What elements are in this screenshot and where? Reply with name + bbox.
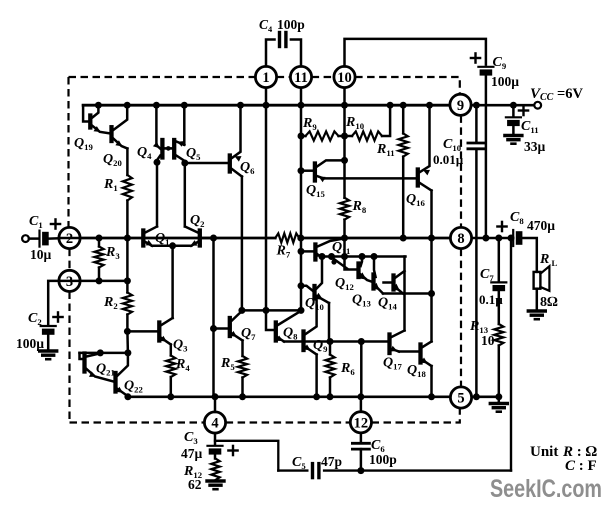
wire pin3 line <box>80 280 127 283</box>
capacitor C5 <box>311 464 314 478</box>
wire Q6 collector col <box>241 177 244 311</box>
wire pin2 stub <box>59 237 80 240</box>
pin 8 <box>450 227 471 248</box>
svg-text:C : F: C : F <box>565 458 597 474</box>
junction Q10 base node <box>298 282 305 289</box>
junction clu331 <box>328 253 335 260</box>
wire input to C1 <box>29 237 38 240</box>
junction R5 rail5 <box>239 393 246 400</box>
wire Q17col up <box>403 257 406 331</box>
wire C6 to bottom line <box>360 449 363 471</box>
junction R7 end col11 <box>297 235 304 242</box>
junction y310 a <box>238 307 245 314</box>
wire rail5 gnd stub <box>498 397 501 404</box>
wire pin2-to-pin8 horizontal line <box>80 237 275 240</box>
junction Q15 base col11 <box>298 167 305 174</box>
transistor Q2 <box>198 231 202 246</box>
svg-text:4: 4 <box>211 416 218 432</box>
wire pin10 lead <box>343 88 346 106</box>
junction R1 pin2line <box>124 235 131 242</box>
wire speaker ground lead <box>536 289 539 311</box>
pin 4 <box>204 412 225 433</box>
junction Q4 collector node <box>154 159 161 166</box>
junction pin12-rail <box>357 393 364 400</box>
resistor R12 <box>211 459 219 481</box>
transistor Q18 <box>418 345 422 363</box>
wire Q1Q2e col to Q3 <box>171 246 174 318</box>
junction clu374 <box>371 253 378 260</box>
junction R8 rail8 <box>341 235 348 242</box>
svg-text:33µ: 33µ <box>524 139 546 154</box>
ground at rail5 right <box>490 402 507 405</box>
svg-text:47p: 47p <box>321 454 342 469</box>
svg-text:100µ: 100µ <box>491 74 519 89</box>
wire pin1 column <box>265 105 268 310</box>
junction C6 bottom line <box>357 467 364 474</box>
wire Q5 emitter col <box>183 105 186 145</box>
junction Q16col rail8 <box>428 235 435 242</box>
capacitor C11 <box>506 116 521 118</box>
wire Q15-Q16 base line <box>324 177 416 180</box>
transistor Q15 <box>313 164 317 181</box>
wire pin11 lead <box>300 88 303 106</box>
svg-text:8Ω: 8Ω <box>540 295 558 310</box>
svg-text:SeekIC.com: SeekIC.com <box>490 475 602 503</box>
junction R2 pin3line <box>124 277 131 284</box>
svg-text:100p: 100p <box>369 452 397 467</box>
capacitor C10 <box>468 142 485 145</box>
wire Q9 emitter col <box>315 355 318 397</box>
transistor Q1 <box>141 231 145 246</box>
junction Q4Q5 base tie <box>166 146 171 151</box>
wire pin11 column <box>300 105 303 310</box>
capacitor C3 <box>208 445 223 447</box>
junction Q7 base node <box>210 325 217 332</box>
transistor Q5 <box>172 140 176 158</box>
wire Q8-Q9-Q17 base line y341 <box>284 340 388 343</box>
transistor Q11 <box>313 245 317 260</box>
wire R3 leads <box>98 238 101 247</box>
plus mark C9 <box>471 57 480 59</box>
transistor Q21 <box>82 354 86 372</box>
wire C7-R13 <box>498 291 501 324</box>
node Vcc terminal <box>534 102 541 109</box>
wire Q5col to Q2 <box>184 163 187 227</box>
transistor Q19 <box>88 116 92 128</box>
wire pin3 to C2 <box>48 281 59 324</box>
wire Q4col to Q1 <box>156 162 159 226</box>
transistor Q12 <box>356 264 360 278</box>
junction y310 b <box>263 307 270 314</box>
wire R13 to rail5 <box>498 346 501 397</box>
wire Q11 base <box>301 250 313 253</box>
ground under R12 <box>207 479 224 482</box>
wire pin4 col <box>212 238 215 397</box>
wire R1col pin2-pin3 <box>126 238 129 281</box>
wire Q10 base <box>301 286 312 291</box>
junction R11 rail8 <box>400 235 407 242</box>
wire R11 to rail8 <box>402 157 405 238</box>
wire R2 to Q3 base <box>126 315 129 332</box>
svg-text:VCC =6V: VCC =6V <box>530 86 583 103</box>
wire pin10 column upper <box>343 105 346 198</box>
transistor Q14 <box>391 276 395 290</box>
wire C8 to speaker <box>522 238 536 272</box>
junction Q9e rail5 <box>313 393 320 400</box>
pin 12 <box>350 412 371 433</box>
plus mark C11 <box>519 109 528 111</box>
wire top bus rail <box>83 104 450 107</box>
wire Q16 collector col <box>430 191 433 239</box>
plus mark C8 <box>497 225 506 227</box>
wire pin12 to C6 <box>360 433 363 441</box>
junction C10 Vcc <box>473 102 480 109</box>
IC boundary dashed left edge <box>67 77 69 227</box>
resistor R1 <box>123 175 132 201</box>
pin 5 <box>450 387 471 408</box>
wire R4 to rail5 <box>170 377 173 397</box>
ground under speaker <box>528 309 545 312</box>
wire y310 line <box>242 309 301 312</box>
junction pin10 bus <box>341 102 348 109</box>
wire Q17e-Q18b <box>399 350 418 353</box>
resistor R10 <box>352 131 382 140</box>
resistor R6 <box>325 355 334 378</box>
wire bootstrap top <box>345 39 486 67</box>
wire cluster out line y293 <box>383 292 432 295</box>
wire Q3 emitter to R4 <box>170 345 173 356</box>
junction clu362 <box>359 253 366 260</box>
junction Q2base col <box>210 235 217 242</box>
wire pin4 to C3 <box>214 433 217 444</box>
junction Q4 bus <box>153 102 160 109</box>
transistor Q3 <box>157 323 161 341</box>
junction C7 rail8 <box>495 235 502 242</box>
transistor Q9 <box>301 332 305 351</box>
wire pin3 stub <box>59 280 80 283</box>
junction pin1 bus <box>263 102 270 109</box>
junction Q3 base node <box>124 328 131 335</box>
capacitor C7 <box>491 281 506 283</box>
wire C7 lead <box>498 238 501 281</box>
wire C1 to pin2 <box>50 237 59 240</box>
junction y352 a <box>97 349 104 356</box>
svg-text:10: 10 <box>481 333 495 348</box>
transistor Q17 <box>387 335 391 354</box>
junction C10 rail5 <box>473 393 480 400</box>
junction R11 bus <box>400 102 407 109</box>
junction clu344 <box>341 253 348 260</box>
svg-text:12: 12 <box>354 415 369 431</box>
transistor Q8 <box>274 323 278 341</box>
junction R6 top <box>327 338 334 345</box>
svg-text:47µ: 47µ <box>181 446 203 461</box>
capacitor C1 <box>38 231 40 247</box>
resistor R7 <box>275 233 299 242</box>
resistor R8 <box>340 198 349 220</box>
junction Q18e rail5 <box>428 393 435 400</box>
svg-text:62: 62 <box>188 477 202 492</box>
resistor R3 <box>94 247 103 268</box>
svg-text:5: 5 <box>457 391 464 407</box>
svg-text:470µ: 470µ <box>527 218 555 233</box>
IC boundary dashed bottom edge <box>70 421 205 423</box>
IC boundary dashed right edge <box>460 115 462 227</box>
wire R8col below rail8 <box>343 238 346 257</box>
junction C11 Vcc <box>510 102 517 109</box>
wire Q3 base line <box>127 330 157 333</box>
svg-text:1: 1 <box>262 70 269 86</box>
svg-text:10: 10 <box>337 70 352 86</box>
junction emitter line <box>169 242 176 249</box>
wire Q5col to Q6 base <box>185 162 228 165</box>
transistor Q13 <box>371 275 375 289</box>
junction y293 col431 <box>428 290 435 297</box>
resistor R9 <box>306 131 339 140</box>
capacitor C4 <box>278 33 281 47</box>
wire Q1Q2 emitter line <box>152 245 191 248</box>
junction clu extra blob <box>331 259 336 264</box>
wire bottom rail pin5 line <box>128 395 450 398</box>
ground under C11 <box>505 134 522 137</box>
wire Vcc rail right of pin 9 <box>471 104 534 107</box>
capacitor C2 <box>41 325 56 327</box>
plus mark C3 <box>228 449 237 451</box>
wire pin12 lead <box>360 397 363 412</box>
wire Q4 collector <box>157 156 160 163</box>
wire R6 bottom lead <box>329 378 332 397</box>
junction Q19 collector bus <box>95 102 102 109</box>
junction y352 b <box>124 349 131 356</box>
wire R8 to rail8 <box>343 220 346 238</box>
transistor Q4 <box>160 140 164 158</box>
wire R11 top lead <box>402 105 405 133</box>
wire bootstrap to rail8 <box>485 76 488 238</box>
wire Q7 emitter to R5 <box>241 341 244 357</box>
capacitor C8 <box>512 230 514 246</box>
junction pin4-rail <box>212 393 219 400</box>
wire Q7 base <box>214 327 228 330</box>
junction bottom line rail8 <box>508 235 515 242</box>
svg-text:100µ: 100µ <box>16 336 44 351</box>
junction R13 rail5 <box>495 393 502 400</box>
pin 10 <box>334 66 355 87</box>
svg-text:100p: 100p <box>277 17 305 32</box>
wire Q20 emitter to R1 <box>126 149 129 176</box>
pin 2 <box>59 227 80 248</box>
svg-text:10µ: 10µ <box>30 247 52 262</box>
junction Q17 base node <box>358 338 365 345</box>
wire pin3line to R2 <box>126 281 129 293</box>
junction clu322 <box>319 253 326 260</box>
junction y310 c <box>298 307 305 314</box>
junction Q22e rail5 <box>124 393 131 400</box>
wire Q18 emitter col <box>430 366 433 397</box>
transistor Q10 <box>312 286 316 299</box>
transistor Q6 <box>228 156 232 172</box>
wire clu diag1 <box>333 258 348 269</box>
wire R1 to pin2 line <box>126 201 129 239</box>
svg-text:0.01µ: 0.01µ <box>433 152 464 167</box>
IC boundary dashed top edge <box>69 76 256 78</box>
junction R9 left <box>298 133 305 140</box>
junction pin11 bus <box>298 102 305 109</box>
wire R5 to rail5 <box>241 378 244 397</box>
svg-text:Unit: Unit <box>530 444 558 460</box>
wire C10 column <box>475 105 478 141</box>
svg-text:11: 11 <box>294 70 308 86</box>
ground under C2 <box>40 349 57 352</box>
transistor Q7 <box>228 318 232 336</box>
junction Q6 emitter bus <box>237 102 244 109</box>
junction Q16 emitter bus <box>426 102 433 109</box>
wire C2 ground lead <box>47 335 50 350</box>
wire Q4 emitter col <box>156 105 160 148</box>
wire Q17base col to rail5 <box>360 342 363 397</box>
junction bootstrap rail8 <box>482 235 489 242</box>
wire Q2 base to col <box>202 237 214 240</box>
capacitor C9 <box>478 66 493 68</box>
plus mark C1 <box>51 223 60 225</box>
junction R4 rail5 <box>167 393 174 400</box>
wire pin4 tap to bottom line <box>215 441 278 471</box>
transistor Q16 <box>416 170 420 186</box>
junction R3 bottom <box>96 277 103 284</box>
junction Q5 collector node <box>181 160 188 167</box>
wire cluster mid line y256 <box>322 255 406 258</box>
svg-text:8: 8 <box>457 231 464 247</box>
wire bottom feedback line <box>278 469 307 471</box>
junction R6 rail5 <box>327 393 334 400</box>
junction Q20 collector bus <box>124 102 131 109</box>
pin 1 <box>255 66 276 87</box>
wire Q15 base <box>301 169 313 172</box>
svg-text:9: 9 <box>457 98 464 114</box>
resistor R5 <box>238 356 247 378</box>
pin 9 <box>450 94 471 115</box>
wire R10 leads <box>345 135 353 138</box>
junction Q15 collector col10 <box>341 157 348 164</box>
transistor Q20 <box>109 127 113 141</box>
wire bus left end to Q19 base <box>83 105 88 121</box>
wire C3 to R12 <box>214 455 217 459</box>
wire Q16col to Q18col <box>430 238 433 342</box>
speaker RL <box>534 272 541 289</box>
resistor R2 <box>123 293 132 315</box>
wire Q3base down to Q21 node <box>126 331 129 353</box>
plus mark C2 <box>53 316 62 318</box>
junction Q5 bus <box>181 102 188 109</box>
resistor R4 <box>166 356 175 378</box>
transistor Q22 <box>113 373 117 392</box>
junction R9 right col10 <box>341 133 348 140</box>
wire Q8 base path <box>266 310 274 330</box>
junction R3 top <box>96 235 103 242</box>
wire R9 leads <box>301 135 306 138</box>
wire C11 lead <box>512 105 515 115</box>
pin 11 <box>290 66 311 87</box>
capacitor C6 <box>352 442 369 445</box>
wire pin8 rail right of pin 8 <box>472 237 514 240</box>
wire C4 loop <box>266 40 275 67</box>
wire C11 ground lead <box>512 126 515 134</box>
wire Q12 base path <box>345 257 357 270</box>
wire pin4 lead <box>214 397 217 412</box>
junction Q11 base <box>298 248 305 255</box>
wire bottom line up to rail8 <box>510 238 512 471</box>
wire pin1 lead <box>265 88 268 106</box>
pin 3 <box>59 270 80 291</box>
node input terminal <box>22 235 29 242</box>
junction R10 bus <box>387 102 394 109</box>
resistor R13 <box>494 324 503 346</box>
wire y352 line <box>80 352 128 355</box>
wire Q5 collector <box>176 156 185 164</box>
wire R6 top lead <box>329 342 332 355</box>
resistor R11 <box>399 133 408 156</box>
wire Q10 emitter col <box>328 303 331 342</box>
